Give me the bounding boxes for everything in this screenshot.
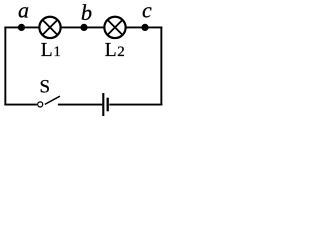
wire bottom left to switch (4, 104, 37, 106)
node a dot (18, 24, 25, 31)
node b dot (80, 24, 87, 31)
switch S pivot (38, 102, 43, 107)
wire top (4, 26, 162, 28)
svg-text:L: L (105, 40, 117, 61)
node c dot (141, 24, 148, 31)
wire right vertical (160, 27, 162, 106)
switch S blade (45, 96, 60, 104)
svg-text:S: S (40, 77, 51, 98)
lamp L2 (104, 17, 125, 38)
svg-text:1: 1 (53, 44, 61, 60)
battery long plate (102, 93, 104, 117)
wire left vertical (4, 27, 6, 106)
wire switch to battery (58, 104, 102, 106)
svg-text:a: a (18, 0, 29, 23)
svg-text:b: b (81, 0, 92, 25)
battery short plate (107, 98, 109, 112)
wire battery to right (109, 104, 162, 106)
svg-text:c: c (142, 0, 152, 23)
lamp L1 (39, 17, 60, 38)
svg-text:2: 2 (117, 44, 125, 60)
svg-text:L: L (41, 40, 53, 61)
